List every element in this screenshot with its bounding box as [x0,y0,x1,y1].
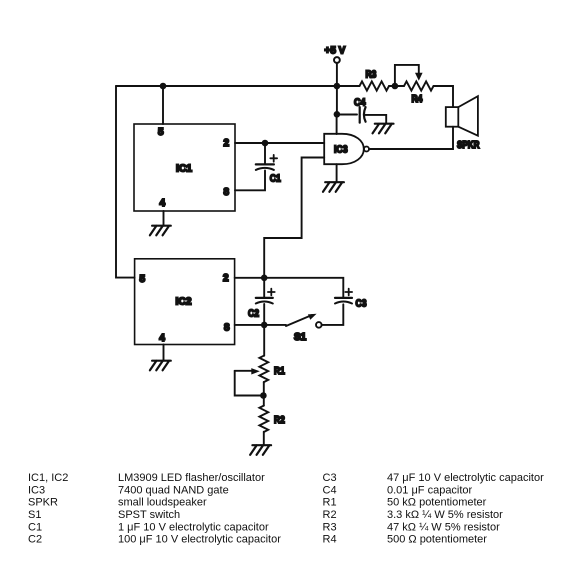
svg-text:LM3909 LED flasher/oscillator: LM3909 LED flasher/oscillator [118,472,265,484]
svg-text:8: 8 [224,187,230,198]
svg-text:C3: C3 [323,472,337,484]
svg-text:C1: C1 [270,173,281,184]
svg-text:IC3: IC3 [28,484,45,496]
node junction IC1 pin2 / C1 [262,140,269,147]
wire IC3 bottom input from IC2 pin2 node [264,158,324,278]
wire IC2 pin2 row [235,278,344,297]
IC2 [135,259,235,345]
svg-text:5: 5 [158,127,164,138]
wire IC1 pin 4 to ground [163,211,165,226]
svg-text:R1: R1 [274,366,285,377]
capacitor C2 [248,278,275,325]
svg-text:2: 2 [224,138,230,149]
wire pin8 node to R1 [263,325,265,356]
wire R2 to ground [263,432,265,445]
svg-text:R4: R4 [323,534,337,546]
wire top rail [116,85,360,87]
wire IC2 pin8 row [235,324,286,326]
parts list [28,472,544,546]
svg-text:47 kΩ ¼ W 5% resistor: 47 kΩ ¼ W 5% resistor [387,521,500,533]
node junction rail/IC1 pin5 [160,83,167,90]
loudspeaker SPKR [446,96,480,151]
svg-text:small loudspeaker: small loudspeaker [118,497,207,509]
svg-text:S1: S1 [294,332,307,343]
ground IC2 [150,361,171,371]
wire IC3 output to speaker [369,127,453,149]
svg-text:47 μF 10 V electrolytic capaci: 47 μF 10 V electrolytic capacitor [387,472,544,484]
capacitor C1 [235,143,281,190]
wire R3 to R4 [389,85,404,87]
svg-text:R2: R2 [274,415,285,426]
svg-text:IC3: IC3 [334,145,348,156]
node junction IC2 pin8 / C2 / R1 [261,322,268,329]
ground R2 [250,445,271,455]
svg-text:IC1, IC2: IC1, IC2 [28,472,68,484]
svg-text:C4: C4 [323,484,337,496]
svg-text:R2: R2 [323,509,337,521]
wire +5V node down to C4 node [336,86,338,114]
wire R4 to speaker top [434,86,453,107]
node junction rail/+5V [334,83,341,90]
svg-text:C2: C2 [248,309,259,320]
svg-text:IC2: IC2 [176,297,192,308]
svg-text:R3: R3 [366,70,377,81]
node junction C4 / IC3 power [334,111,341,118]
svg-text:SPST switch: SPST switch [118,509,180,521]
svg-text:R1: R1 [323,497,337,509]
resistor R2 [259,406,285,432]
wire IC1 pin2 to IC3 input [235,142,324,144]
svg-text:4: 4 [160,198,166,209]
wire IC1 pin 5 [162,86,164,124]
svg-text:+5 V: +5 V [325,46,346,57]
svg-text:SPKR: SPKR [28,497,58,509]
svg-text:C3: C3 [356,299,367,310]
svg-text:R4: R4 [412,94,423,105]
svg-text:4: 4 [159,333,165,344]
capacitor C4 [337,98,386,124]
svg-text:S1: S1 [28,509,41,521]
svg-text:C4: C4 [354,98,366,109]
svg-text:8: 8 [224,323,230,334]
node junction R1/R2 [260,392,267,399]
ground IC1 [150,226,171,236]
resistor R3 [360,70,389,91]
svg-text:1 μF 10 V electrolytic capacit: 1 μF 10 V electrolytic capacitor [118,521,269,533]
potentiometer R4 [395,65,434,105]
switch S1 [286,314,322,343]
svg-text:C2: C2 [28,534,42,546]
svg-text:7400 quad NAND gate: 7400 quad NAND gate [118,484,229,496]
svg-text:100 μF 10 V electrolytic capac: 100 μF 10 V electrolytic capacitor [118,534,281,546]
potentiometer R1 [235,356,285,396]
op-amp IC3 NAND gate [324,134,369,164]
svg-text:5: 5 [140,274,146,285]
ground C4 [373,124,394,134]
wire IC2 pin 4 to ground [163,345,165,361]
wire left drop to IC2 pin 5 [116,86,135,278]
node junction IC2 pin2 / C2 [261,275,268,282]
svg-text:2: 2 [223,273,229,284]
svg-text:C1: C1 [28,521,42,533]
wire IC3 power pin [336,114,338,134]
svg-text:0.01 μF capacitor: 0.01 μF capacitor [387,484,473,496]
svg-text:50 kΩ potentiometer: 50 kΩ potentiometer [387,497,487,509]
IC1 [134,124,235,211]
wire IC3 ground pin [336,164,338,182]
svg-text:R3: R3 [323,521,337,533]
+5 V supply terminal [325,46,346,87]
svg-text:IC1: IC1 [176,164,192,175]
node junction R3/R4 [392,83,399,90]
capacitor C3 [335,289,367,310]
ground IC3 [323,182,344,192]
wire switch to C3 bottom [322,304,344,325]
svg-text:3.3 kΩ ¼ W 5% resistor: 3.3 kΩ ¼ W 5% resistor [387,509,503,521]
svg-text:SPKR: SPKR [457,140,480,151]
wire R1 to R2 [263,382,265,406]
svg-text:500 Ω potentiometer: 500 Ω potentiometer [387,534,487,546]
